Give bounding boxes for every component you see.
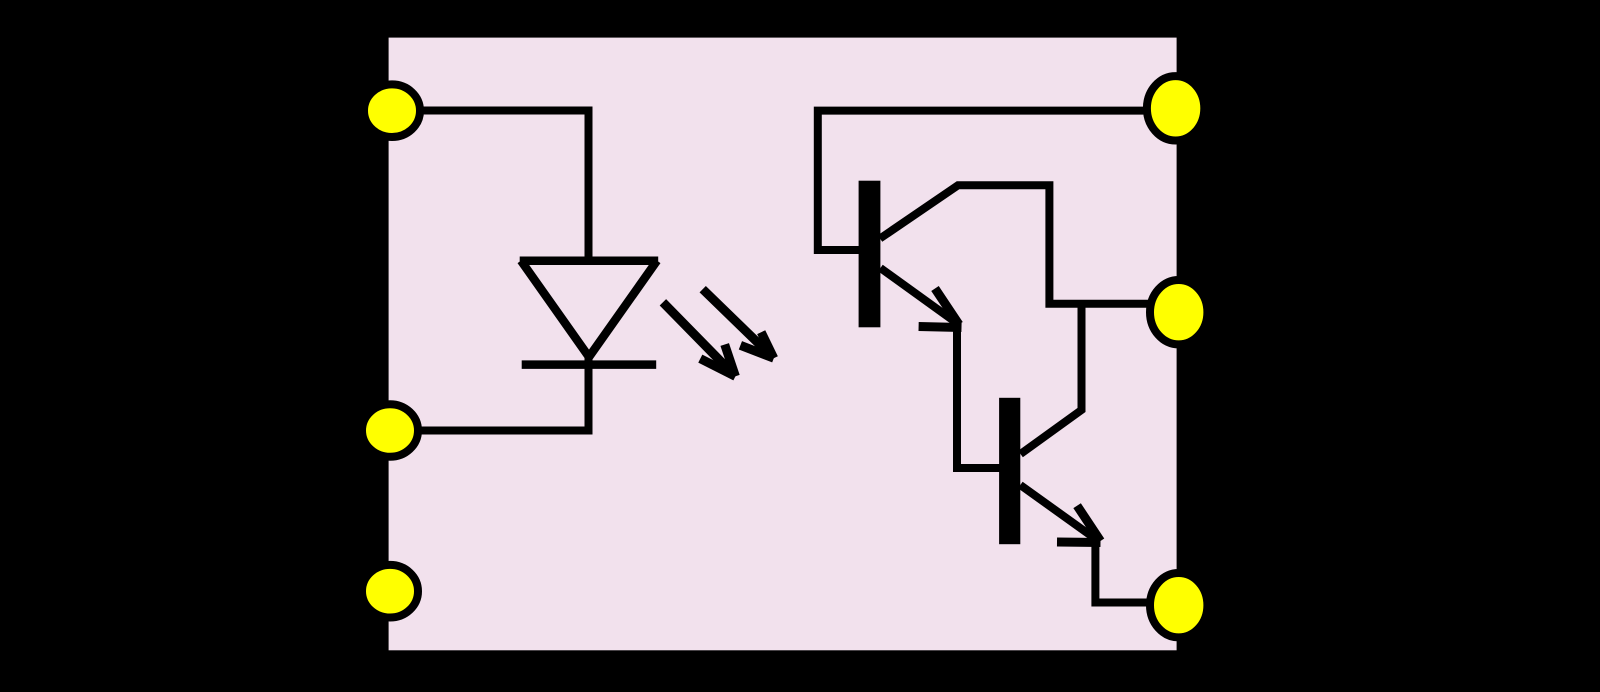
pin 6 (base, top-right) [1147,76,1204,140]
light emission arrow 1 [663,302,736,376]
pin 3 (NC, bottom-left) [362,565,418,618]
LED cathode bar [522,360,657,369]
transistor Q2 emitter arrow [1020,485,1100,543]
wire: pin 6 (base) to Q1 base [818,111,1176,250]
pin 2 (cathode, middle-left) [362,404,418,457]
pin 1 (anode, top-left) [364,84,420,137]
wire: Q1 emitter to Q2 base [957,324,1000,468]
transistor Q1 base bar [859,181,881,328]
transistor Q2 base bar [999,398,1020,544]
transistor Q1 emitter arrow [880,268,961,328]
pin 4 (emitter, bottom-right) [1150,573,1207,637]
wire: pin 1 (anode) to LED anode [392,111,589,263]
LED triangle [521,261,657,357]
wire: Q2 emitter to pin 4 [1095,541,1160,603]
optocoupler package body [389,38,1177,651]
wire: collector net down to Q2 collector [1021,304,1082,454]
LED D1 [520,261,659,365]
pin 5 (collector, middle-right) [1150,280,1207,344]
light emission arrow 2 [703,289,774,358]
LED anode bar (triangle top edge) [520,256,659,265]
transistor Q1 collector [880,185,1160,303]
wire: LED cathode to pin 2 [390,357,589,431]
